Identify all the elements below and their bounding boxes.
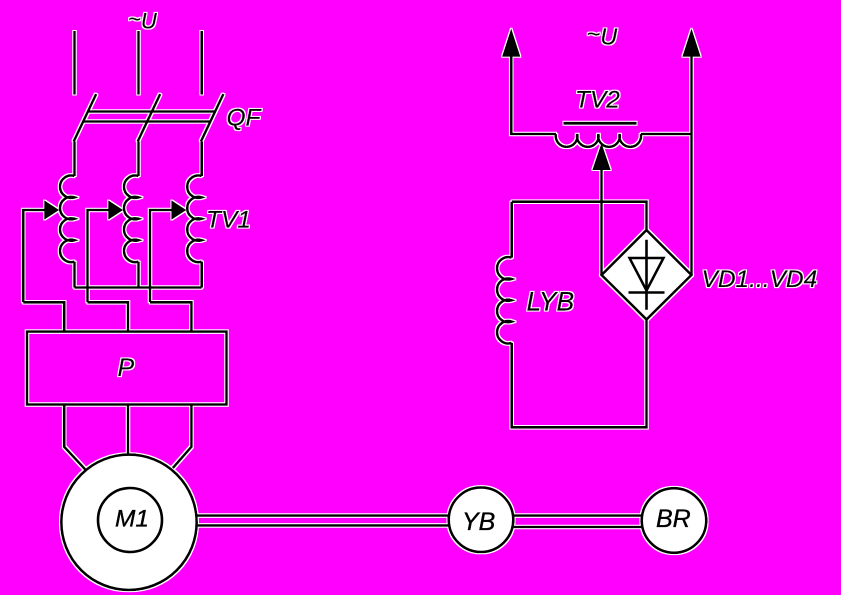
wire TV2 winding right to supply [641,133,692,136]
brake YB circle [449,487,514,552]
wire TV1 coil1 bottom [73,262,76,288]
transformer TV2 core bar [564,122,637,125]
autotransformer TV1 coil 1 [60,176,75,263]
wire TV2 wiper to bridge left vertex [600,169,603,276]
wire wiper2 jog to P [88,302,129,331]
svg-text:VD1...VD4: VD1...VD4 [702,266,818,293]
diode symbol cathode bar [629,291,665,294]
wiper arrow 2 head [109,201,123,219]
wire TV1 coil3 bottom [200,262,203,288]
shaft YB to BR lower line [514,526,642,529]
svg-text:BR: BR [656,505,691,533]
circuit breaker QF pole 2 blade [138,94,161,142]
svg-text:M1: M1 [115,506,149,533]
wire P to motor middle [127,405,130,456]
shaft YB to BR upper line [514,514,642,517]
TV2 wiper arrow head [593,145,610,170]
supply arrow left head [503,30,520,56]
supply arrow right head [683,30,700,56]
wire bridge top vertex to LYB top [512,202,647,230]
wire phase A supply [73,31,76,95]
wire TV1 coil2 bottom [137,262,140,288]
svg-text:TV1: TV1 [206,207,251,234]
autotransformer TV1 coil 3 [187,176,202,263]
svg-text:YB: YB [462,508,495,536]
svg-text:P: P [118,354,135,382]
svg-text:QF: QF [227,105,263,132]
wiper arrow 3 head [172,201,186,219]
wiper arrow 3 tail wire [150,210,173,302]
wire wiper1 jog to P [23,302,64,331]
wire LYB left branch lower [512,320,647,428]
QF linkage bar lower [83,120,210,123]
QF linkage bar upper [88,110,215,113]
wiper arrow 1 head [45,201,59,219]
svg-text:~U: ~U [587,21,619,49]
diode symbol vertical lead [645,240,648,310]
wiper arrow 2 tail wire [88,210,110,302]
svg-text:TV2: TV2 [575,87,620,114]
wire QF pole1 to TV1 coil1 [73,142,76,177]
svg-text:LYB: LYB [527,287,575,317]
wire phase B supply [137,31,140,95]
box P converter [27,332,227,405]
supply arrow left wire [511,55,556,134]
shaft M1 to YB upper line [197,514,449,517]
wire phase C supply [200,31,203,95]
wire wiper3 jog to P [150,302,191,331]
rectifier bridge VD1...VD4 diamond [602,230,692,320]
svg-text:~U: ~U [128,6,157,33]
circuit breaker QF pole 3 blade [201,94,224,142]
wire LYB left branch upper [510,202,513,258]
wire P to motor right [173,405,192,469]
motor M1 inner circle [98,488,162,552]
diode symbol triangle [630,258,664,291]
sensor BR circle [642,488,707,553]
wire TV1 star tie line [75,286,202,289]
supply arrow right wire [690,55,693,275]
wiper arrow 1 tail wire [23,210,45,302]
circuit breaker QF pole 1 blade [74,94,97,142]
transformer TV2 winding [556,134,641,147]
inductor LYB coil [497,257,512,343]
wire P to motor left [64,405,85,470]
wire QF pole2 to TV1 coil2 [137,142,140,177]
shaft M1 to YB lower line [196,524,449,527]
autotransformer TV1 coil 2 [124,176,139,263]
wire QF pole3 to TV1 coil3 [200,142,203,177]
motor M1 outer circle [61,455,196,590]
